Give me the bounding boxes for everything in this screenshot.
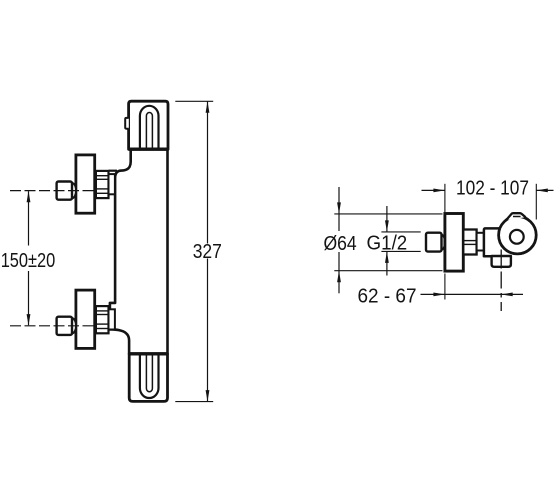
svg-text:Ø64: Ø64 bbox=[324, 233, 357, 255]
dimension 327 line bbox=[207, 101, 209, 243]
side collar bbox=[477, 233, 485, 251]
upper hex nut bbox=[96, 171, 109, 198]
dimension G1/2 line and arrows bbox=[386, 206, 388, 232]
svg-text:62 - 67: 62 - 67 bbox=[358, 286, 417, 308]
dimension 150±20 line bbox=[28, 191, 30, 245]
top handle left notch bbox=[125, 118, 129, 129]
temperature stop button bbox=[506, 213, 525, 220]
lower union nut bbox=[72, 318, 76, 334]
upper inlet centerline bbox=[10, 190, 94, 192]
svg-text:327: 327 bbox=[193, 241, 222, 263]
lower hex nut bbox=[96, 306, 109, 333]
handle knob (side) bbox=[499, 216, 537, 254]
top handle grip outer arch bbox=[140, 106, 159, 149]
outlet stub bbox=[492, 256, 511, 267]
svg-text:150±20: 150±20 bbox=[1, 250, 56, 272]
bottom handle grip inner U bbox=[146, 354, 152, 392]
dimension 327 extension lines bbox=[175, 100, 213, 102]
upper union nut bbox=[72, 183, 76, 199]
side hex nut bbox=[463, 230, 476, 255]
bottom handle bbox=[129, 354, 167, 402]
dimension 102-107 extension lines bbox=[444, 184, 446, 212]
top handle bbox=[129, 101, 168, 149]
top handle grip inner arch bbox=[146, 113, 152, 150]
svg-text:102 - 107: 102 - 107 bbox=[456, 178, 529, 200]
handle/body parting line (bottom) bbox=[129, 352, 167, 355]
dimension 62-67 extension line bbox=[444, 274, 446, 300]
upper inlet shoulder line bbox=[109, 170, 118, 172]
side union nut bbox=[441, 234, 445, 250]
bottom handle grip outer U bbox=[140, 354, 159, 398]
knob hub circle bbox=[510, 230, 524, 244]
upper wall flange bbox=[76, 155, 95, 213]
lower inlet centerline bbox=[10, 325, 94, 327]
valve body block bbox=[484, 228, 510, 256]
mixer body outline bbox=[110, 149, 168, 354]
dimension Ø64 extension lines bbox=[334, 213, 442, 215]
lower wall flange bbox=[76, 290, 95, 348]
lower connector collar bbox=[109, 309, 115, 329]
outlet centerline bbox=[500, 250, 502, 269]
svg-text:G1/2: G1/2 bbox=[367, 232, 408, 254]
side wall flange bbox=[445, 214, 463, 272]
dimension G1/2 extension lines bbox=[381, 231, 420, 233]
upper connector collar bbox=[109, 174, 115, 194]
handle/body parting line (top) bbox=[129, 147, 168, 150]
dimension Ø64 line and arrows bbox=[338, 187, 340, 231]
dimension 102-107 line and arrows bbox=[422, 189, 445, 191]
dimension 62-67 line and arrows bbox=[421, 293, 524, 295]
